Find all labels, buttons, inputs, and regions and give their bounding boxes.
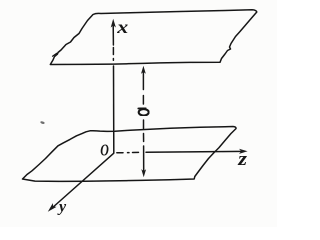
label a (rotated, drawn) [139,109,149,115]
x-axis shaft (solid upper part) [112,24,114,46]
dimension up arrowhead [141,66,146,74]
z-axis arrowhead [239,149,248,154]
z-axis dash-dot near origin [117,151,139,153]
z-axis solid shaft [146,150,244,153]
dimension line upper dashed segments [142,71,144,104]
svg-text:O: O [100,142,109,161]
dimension line lower dashed segments [143,120,145,171]
y-axis arrowhead [48,203,57,212]
x-axis arrowhead [111,19,116,28]
top plane (upper parallelogram) [50,10,256,65]
x-axis dash-dot (hidden behind top plane) [112,48,114,61]
svg-text:x: x [116,18,128,38]
y-axis shaft [52,153,114,208]
bottom plane (lower parallelogram) [23,127,237,182]
dimension down arrowhead [141,169,146,177]
svg-text:z: z [237,148,247,169]
svg-text:y: y [57,199,67,216]
stray speck near left edge [40,121,45,125]
tick on top plane left edge [53,53,57,56]
x-axis main shaft to origin [113,66,115,153]
